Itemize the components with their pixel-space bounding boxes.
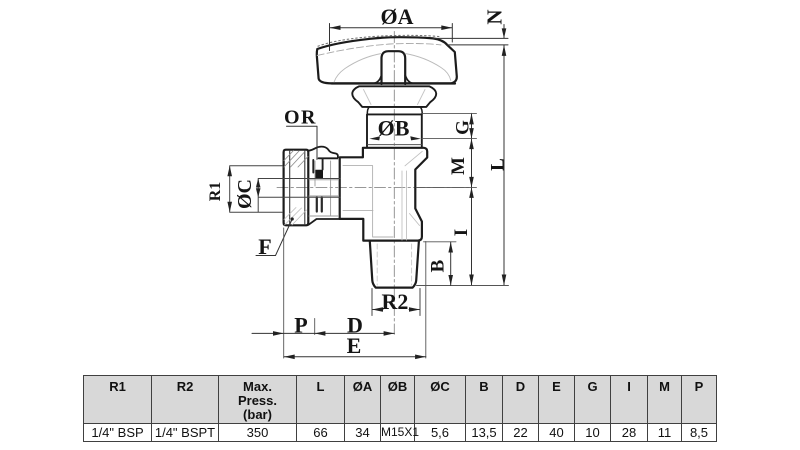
dimension P D [252, 332, 394, 334]
svg-text:F: F [258, 234, 271, 259]
svg-text:R2: R2 [382, 289, 409, 314]
dimension L [503, 45, 505, 286]
knob hub [382, 51, 406, 84]
cylinder base light line [368, 144, 421, 146]
dimension ØA [330, 24, 453, 51]
svg-text:ØB: ØB [378, 115, 410, 140]
knob hub left foot [373, 76, 382, 84]
knob bottom edge [332, 82, 456, 84]
dimension N [433, 25, 508, 45]
body internal bore lines [343, 166, 393, 237]
knob inner contour curve [317, 43, 441, 55]
label OR leader [287, 126, 318, 159]
centerline horizontal [277, 186, 471, 188]
extension lines right side [416, 113, 509, 285]
hand knob [317, 37, 457, 83]
svg-text:R1: R1 [207, 182, 224, 202]
O-ring [315, 170, 323, 179]
nut hatch top [284, 151, 308, 168]
svg-text:M: M [448, 157, 469, 175]
label F leader [256, 220, 292, 256]
bonnet shading line right [418, 90, 426, 105]
olive mid lines [309, 159, 339, 219]
svg-text:ØA: ØA [381, 4, 414, 29]
bottom extension lines [284, 228, 426, 358]
compression olive top [308, 147, 339, 159]
svg-text:ØC: ØC [234, 179, 256, 209]
svg-text:N: N [483, 9, 507, 24]
svg-text:L: L [488, 158, 509, 171]
olive inner hook [313, 159, 322, 173]
svg-text:E: E [347, 333, 362, 358]
bonnet [352, 86, 436, 107]
knob left wing curve [334, 54, 382, 83]
knob right wing curve [405, 54, 451, 81]
svg-text:I: I [451, 229, 472, 236]
union nut [284, 150, 309, 226]
olive lower detail [317, 198, 322, 212]
packing ring [367, 107, 423, 114]
spec table [83, 375, 717, 442]
body chamfer contour [405, 151, 422, 225]
knob hidden top arc [318, 35, 440, 46]
valve body [340, 148, 428, 241]
centerline vertical [393, 32, 395, 335]
bonnet shading line left [364, 90, 372, 105]
dimension G M I chain line [471, 113, 473, 285]
knob hub right foot [405, 76, 414, 84]
nut hex face lines [290, 150, 305, 224]
svg-text:P: P [294, 313, 307, 338]
dimension ØC [258, 179, 340, 213]
olive bottom edge [309, 219, 340, 225]
dimension R1 [230, 166, 282, 213]
dimension B [450, 242, 452, 286]
svg-text:G: G [453, 120, 474, 135]
stem cylinder ØB [367, 114, 422, 147]
male thread R2 [370, 241, 419, 288]
thread crest lines [377, 244, 411, 285]
dimension R2 [372, 289, 420, 316]
dimension ØB arrows [369, 136, 380, 140]
svg-text:OR: OR [284, 107, 317, 129]
nut hatch bottom [284, 208, 307, 226]
dimension E [284, 356, 426, 358]
svg-text:B: B [428, 259, 449, 272]
